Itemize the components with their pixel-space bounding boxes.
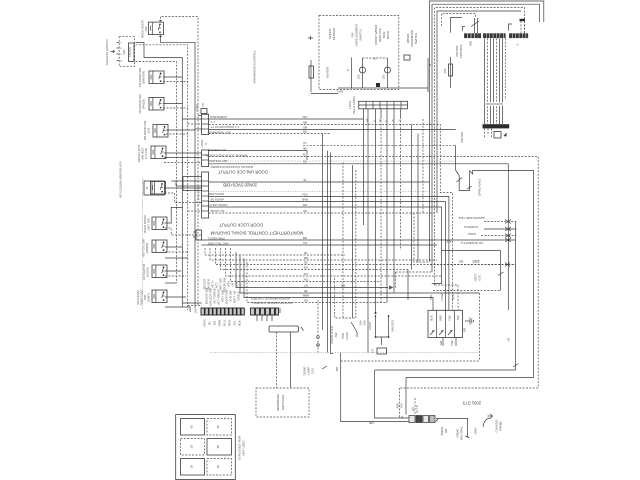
svg-text:MONITOR/THEFT CONTROL SIGNAL D: MONITOR/THEFT CONTROL SIGNAL DIAGRAM [210,231,303,236]
wire top inside box [363,57,388,59]
svg-text:OUT: OUT [239,282,243,288]
wire bundle below C2 [485,38,506,124]
wire v533 right [533,171,535,378]
svg-text:GND E: GND E [237,291,241,300]
svg-text:38B: 38B [446,240,451,244]
svg-text:10A: 10A [472,259,480,264]
svg-text:D13: D13 [311,368,315,374]
switch SW2 front door switch [138,68,164,87]
tailgate connector J1 [111,37,135,67]
wire sw1 top to bus [160,17,198,305]
label ES IC TS [411,405,419,412]
wire out s3a [209,181,430,183]
fuse F1 circles [317,300,320,353]
svg-text:+B: +B [507,338,511,342]
svg-text:MANUAL LOCK/UNLOCK(3000): MANUAL LOCK/UNLOCK(3000) [211,165,253,169]
svg-text:SWITCH: SWITCH [359,29,363,41]
svg-text:2001 D73: 2001 D73 [462,401,481,406]
wire B vertical [427,58,429,92]
tick v500 [498,272,504,276]
svg-text:B: B [391,119,395,121]
wire v368 [367,117,369,353]
svg-text:DOOR UNLO: DOOR UNLO [209,203,227,207]
svg-text:10A: 10A [194,308,198,313]
svg-text:NOT USED: NOT USED [242,440,246,456]
corner v395 [395,272,397,288]
svg-text:CM: CM [303,272,308,276]
wire out s4a [202,239,516,241]
wire v352 [352,165,354,318]
svg-text:KEY SW: KEY SW [147,218,151,230]
wire sw6 to strip [165,187,202,189]
wire v327 [327,151,329,353]
wire sw9 to bus [165,270,181,272]
wire 10A line [430,264,516,266]
svg-text:BLK: BLK [430,315,434,321]
svg-text:C: C [120,43,122,45]
svg-text:GND: GND [474,427,478,434]
svg-text:NO (IGN/BATT-L): NO (IGN/BATT-L) [461,241,484,245]
svg-text:ETC: ETC [478,274,482,281]
switch SW7 back door key switch [143,214,167,232]
below B2 stubs [485,128,492,138]
wire out s4b [202,244,438,246]
wire v394 [393,117,395,293]
switch SW9 actuator [142,263,167,280]
corner h272 [396,271,432,273]
svg-text:BLK: BLK [451,294,455,300]
wire out s3d [209,207,442,251]
svg-text:HORN/HIGH: HORN/HIGH [210,115,227,119]
svg-text:DW: DW [448,315,452,320]
wire v479 dashed [478,293,480,361]
wire out s1c [209,129,456,131]
wire sw4b [166,133,188,135]
wire out s3c [209,202,446,311]
T-bar junction [269,326,304,332]
wire out s3e [209,212,435,214]
bracket left of A [509,24,513,31]
wire v387 [386,117,388,303]
svg-text:30A: 30A [122,49,126,54]
svg-text:100: 100 [382,74,386,79]
svg-text:13: 13 [303,141,307,145]
motor pin row B2 [483,124,510,128]
lock element [368,315,376,337]
short line y235 [481,235,516,237]
wire out s2b [209,157,539,389]
wire v322 [322,134,324,331]
switch SW5 door lock switch [137,145,166,163]
svg-text:VAN/WAGON CONTROL: VAN/WAGON CONTROL [253,50,257,83]
mark lines y221 y229 [484,221,516,223]
svg-text:7K: 7K [303,178,307,182]
motor M2 [382,58,391,88]
switch SW6 door key cylinder switch [144,181,166,195]
junction dot v375 [375,312,377,314]
svg-text:2K: 2K [216,445,220,449]
wire corner down x374 [375,370,409,418]
svg-text:KB: KB [304,298,308,302]
wire h290 dashed [433,290,501,292]
label cluster dome [303,367,315,376]
svg-text:(DOOR): (DOOR) [145,243,149,254]
chassis ground symbol [483,414,493,427]
wire bottom inside box [338,87,428,89]
svg-text:FRAME: FRAME [499,421,503,431]
svg-text:LOCK: LOCK [368,322,372,330]
micro labels below bar [365,119,402,123]
wire corner down x399 dashed [400,388,403,417]
big dashed box left edge [142,178,144,310]
svg-text:TAILGATE (HATCH): TAILGATE (HATCH) [105,39,109,65]
svg-text:A: A [516,43,520,45]
inner dashed box top right [442,14,476,27]
svg-text:A.T HIGH/LOW-S1.TT: A.T HIGH/LOW-S1.TT [210,125,239,129]
svg-text:W: W [378,119,382,122]
svg-text:LRP/A/PIGR: LRP/A/PIGR [485,102,502,106]
switch SW4 rear door switch [143,121,168,141]
svg-text:GU: GU [303,241,307,245]
svg-text:L.T: L.T [211,120,215,124]
switch SW8 key cylinder switch [142,239,168,257]
svg-text:HBM: HBM [302,293,309,297]
wire y361 dashed [341,360,480,362]
labels above relay [429,293,455,300]
nest N4 bottom [375,369,516,371]
svg-text:DPR/LA(HG): DPR/LA(HG) [478,179,482,196]
svg-text:YEL: YEL [233,320,237,326]
wire out s1b [209,125,453,311]
wire tailgate bottom [136,62,177,284]
wire v375 [375,117,377,313]
svg-text:7S: 7S [201,103,205,107]
wire sw2b [163,81,188,83]
wire L10 [247,262,387,303]
svg-text:HEATER REMOTE CONTROL: HEATER REMOTE CONTROL [250,297,290,301]
connector strip S4 [193,230,202,240]
wire sw1 bottom [160,35,195,308]
U-loop connector [457,171,534,191]
wire out s3b [209,197,449,311]
wires above MB [475,18,478,33]
svg-text:BLK: BLK [238,320,242,326]
svg-text:(CDD): (CDD) [468,232,476,236]
svg-text:GB: GB [303,129,307,133]
label 49B 73A [396,403,404,408]
svg-text:B: B [428,64,432,66]
wire tailgate top right [136,45,188,310]
wire bend L3 [216,248,516,265]
wire sw3 to bus [163,103,182,105]
svg-text:GRN: GRN [218,320,222,327]
svg-text:MB: MB [369,421,373,425]
wire out s3a2 gray [209,191,430,193]
svg-text:HORN/CH: HORN/CH [464,225,478,229]
svg-text:SW: SW [144,26,148,31]
switch SW1 back door switch [141,19,164,37]
label gbac neutral [456,426,464,440]
svg-text:100: 100 [357,74,361,79]
svg-text:A/T UNLOCK: A/T UNLOCK [208,148,225,152]
mark M top left of box [308,36,313,40]
bus bottom bends [182,302,201,304]
wire inner corner [451,18,463,33]
svg-text:2B: 2B [304,260,308,264]
svg-text:C: C [346,68,350,71]
wire v418 [417,134,419,263]
wire sw4 to bus [166,129,195,131]
svg-text:E: E [204,142,208,144]
wire sw2 to bus [163,76,182,78]
tick +B on v515 [513,364,519,368]
connector C6 [377,348,387,354]
membrane switches box [256,388,309,417]
svg-text:SWITCH: SWITCH [414,33,418,45]
pin row P1 [201,308,244,315]
svg-text:RAB: RAB [302,197,308,201]
svg-text:T/GATE: T/GATE [128,47,132,57]
small box below B2 [494,132,501,139]
slash mark 24 [471,21,479,27]
wire out s1d [209,133,330,135]
svg-text:MD: MD [458,260,463,264]
svg-text:IGN/ULJOE: IGN/ULJOE [209,192,224,196]
svg-text:1K: 1K [190,445,194,449]
feeds into strip1 [182,118,201,120]
wire sw10b [165,307,190,312]
switch SW10 keyless theft switch [136,289,167,305]
exploded view grid [176,415,236,480]
wire out s2a [209,151,307,161]
wire sw9b [165,275,186,277]
svg-text:DSW: DSW [440,293,444,300]
wire v355 [355,170,357,318]
svg-text:B: B [120,60,122,62]
svg-text:(UNIT): (UNIT) [147,293,151,302]
svg-text:S/L VALVE: S/L VALVE [210,209,224,213]
svg-text:DOOR LOCK OUTPUT: DOOR LOCK OUTPUT [219,223,263,228]
svg-text:B/D: B/D [429,294,433,300]
line y145 dashed [303,144,456,146]
nest N2 [432,4,540,272]
motor connector row C2 [483,33,506,38]
wire color labels [485,102,502,106]
wire 1W [311,93,338,95]
wire C vertical [351,58,353,89]
pin row P2 [251,308,281,315]
wire from P5 right [436,418,468,437]
stubs below relay box [443,338,456,347]
svg-text:(LOCK): (LOCK) [146,267,150,277]
nest N3 bottom [406,377,534,379]
wire v343 dashed [342,163,344,319]
svg-text:5S: 5S [190,425,194,429]
svg-text:MEMBRANE: MEMBRANE [276,394,280,411]
wire L9 [244,258,433,310]
connector strip S1 [202,114,209,134]
wire sw5c [164,162,202,164]
svg-text:BLU: BLU [223,320,227,326]
svg-text:1N: 1N [190,465,194,469]
wire v381 [380,117,382,303]
svg-text:VGA: VGA [302,192,308,196]
stubs under P2 [256,315,258,321]
wire v400 [400,117,402,250]
arrowhead L7 [389,286,394,290]
svg-text:100: 100 [443,68,447,73]
wire v500 [500,251,502,291]
wire v515 right [515,222,517,371]
svg-text:C: C [384,119,388,122]
wire sw8b [165,251,188,253]
unlock element [388,315,395,337]
svg-text:KB: KB [304,265,308,269]
wire sw7b corner [165,228,202,235]
arrow mark below B2 [504,133,507,137]
svg-text:UNLOCK: UNLOCK [391,320,395,332]
svg-text:IC TS: IC TS [415,405,419,412]
wire out s2c [209,160,455,162]
svg-text:CB: CB [303,152,307,156]
small box W left of wiper switch [404,55,410,60]
svg-text:MD: MD [302,125,307,129]
connector strip S2 [202,150,209,167]
svg-text:COM: COM [195,104,199,111]
svg-text:73K: 73K [303,277,308,281]
wire v411 [411,125,413,270]
svg-text:VECC: VECC [203,318,207,327]
wire sw8 to bus [165,246,182,248]
dashed box master [335,278,356,318]
wire sw5b [164,157,202,159]
corner h285 [435,285,459,310]
svg-text:BULK CONN: BULK CONN [352,96,356,113]
svg-text:+B: +B [365,119,369,123]
svg-text:1B: 1B [304,251,308,255]
label 5M3G [440,426,448,435]
svg-text:HW: HW [302,115,307,119]
svg-text:7S: 7S [243,309,247,313]
svg-text:CYL FR): CYL FR) [144,148,148,159]
connector strip S3 [202,172,209,218]
svg-text:S: S [398,119,402,121]
svg-text:MT: MT [304,283,308,287]
svg-text:73A: 73A [400,403,404,408]
svg-text:KEYLESS/ALARM RELAYS: KEYLESS/ALARM RELAYS [119,161,123,197]
svg-text:(PASS): (PASS) [142,99,146,109]
wire v330 [331,153,334,354]
svg-text:E: E [373,119,377,121]
long dashed line y352 [210,352,480,354]
svg-text:BB: BB [304,256,308,260]
nest N2 bottom [400,387,539,389]
wire bend L2 [210,248,437,260]
svg-text:SWITCHES: SWITCHES [281,395,285,410]
bracket left of MB [463,27,466,32]
svg-text:GB: GB [463,328,467,332]
stem wires to membrane [276,332,278,388]
svg-text:SW: SW [456,315,460,320]
nest N4 [437,11,521,213]
svg-text:HEATER: HEATER [326,66,330,79]
10A box [442,250,501,252]
wire sw8c [165,257,188,259]
svg-text:COM: COM [345,332,349,339]
ground G1 right of relay [463,318,474,333]
svg-text:GB: GB [444,429,448,433]
wire L7 with arrow [236,252,388,288]
LABEL BLOCK above pin row 1 [203,278,243,306]
junction dot M [376,83,380,87]
join bottom [376,337,389,345]
labels under P1 [203,318,242,327]
svg-text:CONTROL: CONTROL [459,43,463,58]
svg-text:B: B [145,187,149,189]
wire color labels column [302,115,309,303]
svg-text:1(W): 1(W) [337,89,343,93]
svg-text:RED: RED [228,319,232,326]
svg-text:SENSOR: SENSOR [332,27,336,40]
wire bend L4 [221,248,409,270]
wire bend L5 [226,248,442,276]
wire corner down x340 [341,353,409,422]
motor connector row MB [464,33,481,38]
switch contact C [351,322,357,337]
nest N3 [435,8,525,286]
svg-text:B1: B1 [208,321,212,325]
svg-text:(LH): (LH) [147,128,151,134]
wire sw7 to strip [165,207,182,223]
svg-text:BR: BR [335,366,339,371]
svg-text:NEUTRAL: NEUTRAL [460,426,464,440]
resistor R1 left [309,60,314,92]
svg-text:1 2 3 4 5 6 7 8: 1 2 3 4 5 6 7 8 [197,186,201,205]
svg-text:DW: DW [450,340,454,345]
svg-text:30A: 30A [363,320,367,325]
motor M1 [357,58,366,88]
wire sw3b [163,107,188,109]
svg-text:4B: 4B [303,146,307,150]
nest N1 [430,1,544,262]
wire v423 [422,119,424,213]
resistor R2 right [443,57,453,88]
motor connector row A [509,33,528,38]
wire sw9c [165,282,177,284]
ECU pin row P5 [409,416,438,423]
junction tick [505,263,510,267]
wire v414 corner [414,213,430,262]
label door lock sw [330,326,349,344]
wire sw6b [165,193,203,203]
box U2 speed sensor [319,16,399,90]
feeds into strip3 [183,176,202,178]
wire sw5 to strip [164,152,202,154]
stubs below bar [364,109,401,119]
svg-text:BACK: BACK [386,31,390,39]
svg-text:GB: GB [303,160,307,164]
junction bar J2 [359,101,408,109]
svg-text:DB: DB [303,236,307,240]
svg-text:MD: MD [302,120,307,124]
svg-text:MASTER REMOTE CONTROL: MASTER REMOTE CONTROL [251,301,292,305]
svg-text:HANDS/LAMP-TELL: HANDS/LAMP-TELL [458,216,485,220]
wire out s1a [209,118,364,120]
svg-text:3B: 3B [304,289,308,293]
wires above A [521,21,525,33]
wire bend L1 [205,248,345,255]
svg-text:(DRIVER): (DRIVER) [142,71,146,84]
